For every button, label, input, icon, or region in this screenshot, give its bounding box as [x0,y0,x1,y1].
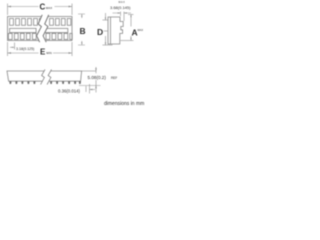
svg-text:MAX: MAX [119,1,126,4]
svg-text:0.36(0.014): 0.36(0.014) [58,88,81,93]
top view center bar left [10,28,36,32]
top view contact holes bottom row right group [46,33,72,39]
svg-text:3.68(0.145): 3.68(0.145) [110,5,131,10]
dimension 3.68 extension lines [121,12,125,22]
dimension E line [8,52,73,54]
svg-text:C: C [40,2,46,11]
svg-text:D: D [97,27,103,37]
end view inner wall [110,17,112,44]
dimension B bottom tick [78,41,85,45]
side view break zigzag [41,70,45,85]
dimension D arrowheads [105,17,106,45]
top view contact holes top row right group [50,19,71,26]
dimension 0.36 arrowhead [90,89,93,91]
dimension 5.08 line [95,67,97,93]
top view center bar right [45,28,68,32]
svg-text:dimensions in mm: dimensions in mm [104,101,144,107]
dimension E extension line right [71,42,73,56]
top view contact holes top row left group [10,19,42,26]
top view break zigzag [37,15,49,42]
dimension D line [105,13,107,45]
dimension C line [8,6,73,8]
top view contact holes bottom row left group [8,33,40,39]
svg-text:B: B [80,26,86,36]
dimension E arrowheads [8,52,73,54]
svg-text:MAX: MAX [46,6,53,10]
dimension B arrowheads [81,14,82,45]
svg-text:MAX: MAX [138,28,144,32]
dimension 5.08 bottom seat line [79,85,101,87]
svg-text:E: E [40,47,46,56]
dimension D bottom tick [103,44,113,46]
dimension 0.36 ticks [86,84,90,94]
dimension A bottom extension [121,40,134,42]
dimension 0.36 arrow line [90,89,96,91]
dimension 3.18 arrowhead [12,47,15,48]
dimension A line [130,15,132,41]
end view body outline [108,17,123,44]
dimension C extension line left [7,4,9,16]
dimension C extension line right [71,4,73,16]
dimension 5.08 arrowheads [95,68,97,88]
dimension 3.18 tick [14,43,16,50]
dimension A top tick [128,14,134,16]
svg-text:3.18(0.125): 3.18(0.125) [16,47,34,51]
dimension E extension line left [7,42,9,56]
side view break mask [41,70,52,85]
dimension A arrowheads [130,15,131,41]
side view pins (teeth) [9,81,81,84]
dimension 3.68 arrowheads [118,12,127,13]
svg-text:REF: REF [111,76,117,80]
dimension C arrowheads [8,6,73,8]
svg-text:MIN: MIN [46,51,52,55]
dimension 3.68 outside arrow lines [113,12,132,14]
dimension D leader dash [104,30,108,32]
dimension 5.08 top extension [82,70,97,72]
dimension D top tick [103,19,109,21]
svg-text:5.08(0.2): 5.08(0.2) [88,75,107,80]
dimension B top tick [78,14,85,18]
top view break mask [37,16,49,42]
side view body outline [7,71,82,81]
top view body outline [8,17,73,41]
dimension 3.18 arrow line [10,46,15,48]
